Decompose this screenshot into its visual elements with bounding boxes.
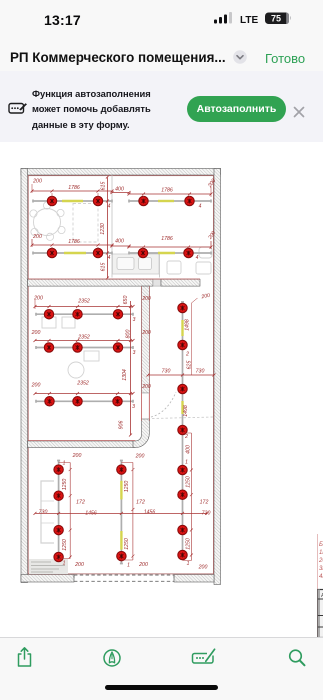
svg-text:75: 75: [271, 14, 281, 24]
yellow segment row1 left: [62, 199, 83, 201]
yellow segment corridor upper: [181, 320, 183, 336]
svg-text:400: 400: [115, 186, 124, 192]
svg-text:3: 3: [133, 350, 136, 356]
sprinkler lamp S26: [54, 464, 63, 473]
svg-text:1250: 1250: [124, 538, 130, 550]
track top row1 left: [33, 199, 112, 202]
dimension line bottom cross dim: [34, 511, 209, 514]
svg-text:2352: 2352: [76, 380, 89, 386]
close x: [292, 105, 306, 119]
furniture desk bottom-left: [41, 481, 54, 543]
svg-text:906: 906: [119, 420, 125, 429]
svg-text:200: 200: [135, 453, 145, 459]
svg-text:200: 200: [31, 382, 41, 388]
svg-text:200: 200: [31, 330, 41, 336]
track top row2 right: [129, 251, 211, 254]
share icon: [16, 646, 33, 668]
furniture table middle room row B: [84, 351, 99, 361]
wall corridor vertical: [142, 286, 150, 393]
extension line top-left: [32, 184, 98, 199]
svg-text:1250: 1250: [186, 476, 192, 488]
svg-text:200: 200: [138, 562, 148, 568]
dimension line mid dim B: [34, 339, 135, 342]
dimension line corridor cross dim: [147, 373, 216, 376]
svg-text:2б: 2б: [318, 558, 323, 564]
svg-text:200: 200: [32, 178, 42, 184]
track corridor vertical: [181, 302, 184, 559]
svg-text:4г: 4г: [319, 574, 323, 580]
corridor wall window part: [142, 393, 150, 421]
sprinkler lamp S19: [178, 340, 187, 349]
svg-text:200: 200: [141, 384, 151, 390]
status bar: [0, 0, 323, 44]
sprinkler lamp S14: [113, 342, 122, 351]
svg-text:2352: 2352: [77, 334, 90, 340]
wall interior horizontal upper door lighter part: [153, 279, 161, 286]
sprinkler lamp S12: [44, 342, 53, 351]
wall outer right: [214, 168, 221, 584]
furniture round table middle room: [68, 362, 84, 378]
dimension line row2 400: [111, 244, 131, 247]
furniture tables middle room row A: [42, 317, 75, 328]
sprinkler lamp S16: [73, 396, 82, 405]
sprinkler lamp S18: [178, 303, 187, 312]
furniture desk shelf lines: [41, 501, 54, 523]
adjacent sheet frame edge: [317, 534, 319, 638]
extension line top-right: [144, 187, 212, 199]
wall bottom right segment: [174, 574, 214, 582]
yellow segment bottom2 lower: [120, 531, 122, 550]
furniture round table top-left: [34, 208, 61, 235]
sprinkler lamp S22: [178, 465, 187, 474]
svg-text:172: 172: [136, 499, 145, 505]
svg-text:4: 4: [199, 203, 202, 209]
svg-text:730: 730: [202, 510, 211, 516]
furniture sink bowls: [117, 257, 152, 269]
red edge interior wall upper: [28, 278, 200, 280]
wall outer left: [21, 168, 28, 582]
svg-text:1498: 1498: [185, 319, 191, 331]
svg-text:1250: 1250: [124, 480, 130, 492]
svg-text:1786: 1786: [68, 185, 80, 191]
partition second top room: [159, 253, 161, 278]
svg-text:1786: 1786: [68, 239, 80, 245]
wall bottom left segment: [21, 574, 74, 582]
svg-text:615: 615: [100, 262, 106, 271]
dimension chain corridor lower: [183, 433, 193, 561]
svg-text:3: 3: [132, 404, 135, 410]
sprinkler lamp S17: [113, 396, 122, 405]
track middle row C: [36, 399, 133, 402]
svg-text:400: 400: [186, 445, 192, 454]
svg-text:615: 615: [100, 181, 106, 190]
svg-text:1786: 1786: [161, 236, 173, 242]
sprinkler lamp S10: [73, 309, 82, 318]
svg-text:1304: 1304: [122, 369, 128, 381]
svg-text:200: 200: [200, 292, 211, 300]
track bottom 2: [120, 460, 123, 563]
track middle row B: [36, 346, 133, 349]
svg-text:650: 650: [123, 295, 129, 304]
svg-text:200: 200: [32, 234, 42, 240]
stamp block bottom-left: [29, 559, 68, 574]
red edges corridor wall: [141, 286, 149, 421]
furniture chairs around table: [30, 201, 65, 240]
sprinkler lamp S13: [73, 342, 82, 351]
svg-text:200: 200: [72, 453, 82, 459]
dimension line top left dim: [31, 189, 114, 192]
svg-text:200: 200: [74, 562, 84, 568]
dimension line mid dim A: [34, 305, 135, 308]
sprinkler lamp S29: [54, 552, 63, 561]
sprinkler lamp S3: [139, 196, 148, 205]
svg-text:4: 4: [196, 255, 199, 261]
sprinkler lamp S11: [113, 309, 122, 318]
svg-text:730: 730: [196, 368, 205, 374]
svg-text:2352: 2352: [77, 298, 90, 304]
svg-text:4: 4: [108, 203, 111, 209]
svg-text:2: 2: [184, 434, 188, 440]
dimension line top 400 dim: [111, 191, 131, 194]
markup pen icon: [103, 649, 121, 667]
svg-text:LTE: LTE: [240, 15, 258, 26]
yellow segment corridor lower: [181, 401, 183, 414]
dimension line row2 left: [31, 239, 114, 251]
sprinkler lamp S2: [93, 196, 102, 205]
sprinkler lamp S25: [178, 550, 187, 559]
bottom toolbar: [0, 637, 323, 700]
svg-text:400: 400: [115, 238, 124, 244]
wall interior horizontal upper right part: [161, 279, 200, 286]
sprinkler lamp S9: [44, 309, 53, 318]
wall outer top: [21, 168, 221, 175]
svg-text:3: 3: [133, 317, 136, 323]
svg-text:1: 1: [63, 560, 66, 566]
dimension chain bottom track1: [59, 462, 72, 558]
signal bars: [214, 12, 232, 24]
yellow segment row2 left: [64, 251, 86, 253]
wall interior horizontal lower: [28, 441, 136, 448]
yellow segment row2 right: [158, 251, 175, 253]
track middle row A: [36, 312, 133, 315]
yellow segment bottom2 upper: [120, 480, 122, 499]
sprinkler lamp S7: [138, 248, 147, 257]
svg-text:1: 1: [187, 561, 190, 567]
track bottom 1: [57, 460, 60, 561]
sprinkler lamp S30: [117, 464, 126, 473]
svg-text:172: 172: [200, 499, 209, 505]
search icon: [287, 648, 307, 668]
sprinkler lamp S1: [47, 196, 56, 205]
sprinkler lamp S20: [178, 384, 187, 393]
wall rounded elbow: [133, 419, 149, 448]
dimension line vertical chain mid right: [129, 301, 132, 437]
signature icon: [190, 645, 218, 667]
svg-text:Б6: Б6: [319, 542, 323, 548]
dimension line row2 right: [128, 241, 213, 251]
svg-text:3в: 3в: [319, 566, 323, 572]
leader corridor 200: [192, 298, 198, 375]
sprinkler lamp S6: [93, 248, 102, 257]
furniture dashed cabinet top-left: [73, 203, 98, 242]
sprinkler lamp S4: [185, 196, 194, 205]
navigation/title bar: [0, 44, 323, 71]
hidden line right of elbow: [152, 417, 214, 419]
svg-text:1: 1: [185, 459, 188, 465]
dimension line mid dim C: [34, 392, 135, 395]
form/pen icon: [8, 100, 28, 116]
sprinkler lamp S28: [54, 525, 63, 534]
glass partition top rooms: [111, 175, 113, 277]
svg-text:1786: 1786: [161, 187, 173, 193]
svg-text:1к: 1к: [319, 550, 323, 556]
sprinkler lamp S24: [178, 525, 187, 534]
document page with drawing: [0, 142, 323, 638]
door swing arc corridor: [151, 392, 176, 417]
extension lines mid A: [35, 300, 118, 312]
svg-text:1: 1: [63, 460, 66, 466]
track top row2 left: [33, 251, 112, 254]
svg-text:200: 200: [198, 564, 208, 570]
sprinkler lamp S8: [184, 248, 193, 257]
chevron button: [233, 50, 247, 64]
svg-text:200: 200: [33, 295, 43, 301]
dimension line top right dim: [128, 192, 213, 195]
home indicator: [105, 685, 218, 690]
sprinkler lamp S5: [47, 248, 56, 257]
autofill banner: [0, 71, 323, 142]
red edge interior wall lower: [28, 439, 135, 441]
svg-text:4: 4: [108, 255, 111, 261]
svg-text:1250: 1250: [62, 539, 68, 551]
dimension chain bottom track2: [121, 462, 134, 560]
svg-text:200: 200: [141, 330, 151, 336]
svg-text:1456: 1456: [144, 509, 156, 515]
sprinkler lamp S15: [45, 396, 54, 405]
track top row1 right: [129, 199, 211, 202]
room inner red outline: [28, 175, 213, 573]
furniture toilet fixtures top right: [167, 247, 212, 274]
svg-text:730: 730: [39, 509, 48, 515]
svg-text:1250: 1250: [186, 538, 192, 550]
adjacent sheet red text lines: [318, 542, 323, 580]
svg-text:625: 625: [187, 360, 193, 369]
bottom wall dashed opening: [74, 575, 174, 581]
furniture kitchen counter: [113, 254, 160, 274]
dimension line vertical chain x107: [106, 175, 109, 279]
svg-text:1: 1: [127, 562, 130, 568]
sprinkler lamp S31: [117, 551, 126, 560]
svg-text:200: 200: [141, 296, 151, 302]
autofill button: [187, 96, 286, 122]
sprinkler lamp S23: [178, 490, 187, 499]
svg-text:1250: 1250: [62, 478, 68, 490]
svg-text:730: 730: [162, 368, 171, 374]
svg-text:1498: 1498: [183, 405, 189, 417]
yellow segment row1 right: [158, 199, 174, 201]
svg-text:1230: 1230: [100, 223, 106, 235]
sprinkler lamp S21: [178, 425, 187, 434]
sprinkler lamp S27: [54, 491, 63, 500]
adjacent sheet title block: [318, 589, 323, 637]
wall interior horizontal upper left part: [28, 279, 154, 286]
battery: [265, 13, 291, 25]
svg-text:2: 2: [185, 351, 189, 357]
svg-text:172: 172: [76, 499, 85, 505]
